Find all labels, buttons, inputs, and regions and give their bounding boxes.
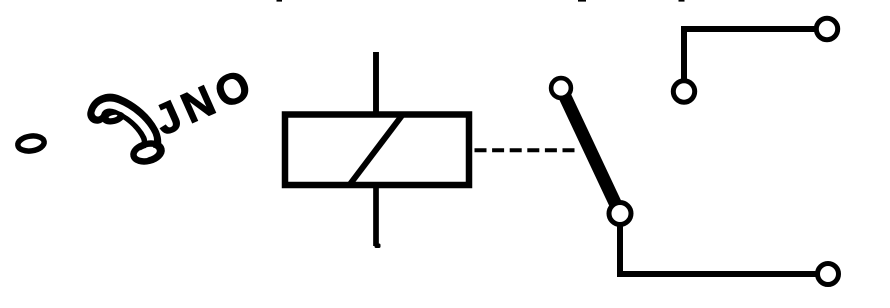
pen nub at pin end [375,244,381,249]
cropped glyph mark top 1 [277,0,283,2]
node o (small ellipse label) [17,134,45,152]
cropped glyph mark top 2 [578,0,586,2]
terminal top right [816,18,837,39]
wire pivot to bottom right [620,224,816,274]
coil diagonal [349,114,404,186]
squiggle loop interior [137,146,158,160]
relay coil K1 [285,115,469,186]
cropped glyph mark top 3 [679,0,685,2]
squiggle glyph (outlined tube) [97,103,152,148]
mechanical link (dashed) [475,148,577,152]
lever pivot terminal [609,203,631,225]
squiggle inner curl [101,109,126,126]
terminal NO contact [673,81,694,102]
terminal bottom right [818,264,839,285]
lever top terminal [551,78,571,98]
switch lever [561,88,620,214]
bottom loop of squiggle glyph [132,141,164,164]
coil top pin wire [373,52,379,114]
wire NO contact to top right [684,29,816,80]
coil bottom pin wire [373,185,379,246]
